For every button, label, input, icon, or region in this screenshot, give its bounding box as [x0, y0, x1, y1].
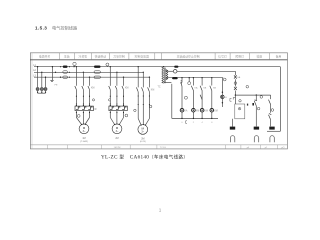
svg-text:刀架控制: 刀架控制 — [113, 54, 125, 58]
node dots on signal branch — [222, 92, 223, 104]
svg-text:冷却泵: 冷却泵 — [79, 54, 88, 58]
socket XS3 shell — [270, 136, 274, 143]
svg-text:1: 1 — [159, 208, 162, 213]
node dots above FR1 — [76, 105, 90, 106]
terminal circle right of M1 — [92, 99, 94, 101]
terminal circle top right b — [260, 96, 263, 99]
terminal circle top right a — [246, 85, 249, 88]
svg-text:电源开关: 电源开关 — [39, 54, 51, 58]
coil KM2 — [200, 108, 204, 112]
fuse FU1 pole L2 — [63, 71, 68, 73]
svg-text:1.5.3: 1.5.3 — [35, 26, 47, 31]
node taps on L1 L2 L3 for plug — [37, 66, 46, 78]
svg-text:KM: KM — [205, 110, 209, 112]
svg-text:(0.25): (0.25) — [140, 141, 146, 143]
svg-text:电气控制线路: 电气控制线路 — [52, 24, 78, 31]
node taps M3 — [138, 66, 151, 78]
node dots above FR2 — [110, 105, 124, 106]
contactor KM1 main contacts — [75, 86, 90, 90]
bottom strip top rule — [30, 144, 288, 146]
lamp HL signal — [173, 70, 177, 74]
socket XS2 shell — [254, 136, 258, 143]
terminal circle near M2 — [125, 114, 128, 117]
wire drop to plug pole 1 — [37, 67, 39, 88]
node dots on M1 M2 poles — [76, 96, 124, 105]
transformer TC core — [163, 68, 166, 84]
node taps M2 — [110, 66, 125, 78]
svg-text:插座: 插座 — [257, 54, 263, 58]
node PE taps — [52, 66, 62, 78]
svg-text:备用: 备用 — [276, 54, 282, 58]
svg-text:1M: 1M — [82, 137, 85, 140]
header row bottom rule — [30, 59, 288, 61]
coil KM3 — [210, 108, 214, 112]
wire right edge drop — [267, 67, 280, 132]
terminal circle left of M2 — [109, 99, 111, 101]
svg-text:SA: SA — [237, 76, 240, 79]
control branch 4 wire — [211, 78, 213, 119]
ground PE — [50, 80, 53, 81]
fuse FU2 pole L1 (filled) — [94, 66, 101, 68]
wire M1 below relay — [76, 111, 89, 125]
node stub EL — [188, 78, 190, 82]
node dots below FR2 — [110, 112, 124, 113]
wire stubs below plug — [38, 91, 46, 94]
wire secondary 36V lead — [167, 70, 174, 72]
wire M1 pole drops lower — [76, 90, 89, 107]
svg-text:快速移动: 快速移动 — [95, 54, 107, 58]
wire M2 below relay — [110, 111, 123, 125]
value label M3 — [140, 137, 146, 143]
wire L3 bus — [34, 76, 149, 78]
wire L1 bus — [34, 66, 280, 68]
terminal circle above box — [239, 100, 241, 102]
socket XS1 base — [230, 127, 235, 130]
terminal circle near M1 — [77, 115, 80, 118]
wire L2 bus — [34, 71, 143, 73]
thermal relay FR1 box — [75, 106, 93, 111]
wire drop to plug pole 3 — [45, 77, 47, 87]
svg-text:(7.5kW): (7.5kW) — [80, 141, 88, 143]
wire into XS1 — [232, 119, 234, 127]
wire drop to plug pole 2 — [41, 72, 43, 87]
plug XP pole 3 — [44, 88, 47, 91]
lamp EL indicator — [188, 82, 191, 85]
node on link — [256, 94, 257, 95]
node dots below FR1 — [76, 112, 90, 113]
switch contact lower (x mark) — [234, 87, 237, 90]
control branch 2 wire — [192, 78, 194, 119]
node dots below plug — [37, 92, 46, 93]
plug XP pole 2 — [40, 88, 43, 91]
lamp circle inside box — [238, 108, 240, 110]
fuse FU4 on control bus (filled) — [172, 77, 178, 79]
right branch 2 wire — [270, 95, 272, 126]
svg-text:3M: 3M — [141, 137, 144, 140]
fuse FU2 pole L2 — [94, 71, 101, 73]
box lighting unit EL — [235, 104, 245, 119]
svg-text:6: 6 — [211, 122, 213, 124]
socket XS1 shell — [230, 136, 234, 143]
bottom strip labels — [114, 147, 286, 149]
socket XS2 base — [254, 127, 259, 130]
wire secondary stubs — [165, 70, 167, 80]
svg-text:KM: KM — [196, 110, 200, 112]
wire lighting drop at 235.4 — [234, 71, 236, 104]
motor M3 — [138, 124, 148, 134]
svg-text:信号灯: 信号灯 — [218, 54, 227, 58]
drawing outer frame — [30, 53, 287, 149]
node dots on control bus — [181, 77, 212, 78]
svg-text:照明灯: 照明灯 — [235, 54, 244, 58]
node taps M1 — [76, 66, 91, 78]
svg-text:KM: KM — [151, 90, 155, 92]
wire M2 pole drops upper — [110, 67, 123, 86]
terminal circle on drop — [234, 82, 237, 85]
wire 0V return — [164, 83, 218, 119]
wire 36V continues — [177, 70, 235, 72]
terminal circle SB — [184, 96, 187, 99]
svg-text:主轴起动停止控制: 主轴起动停止控制 — [177, 54, 200, 58]
svg-text:KM: KM — [214, 110, 218, 112]
terminal circle on L1 at 107 — [106, 63, 109, 67]
contactor KM2 main contacts — [109, 86, 124, 90]
svg-text:FR: FR — [94, 109, 97, 111]
svg-text:SB: SB — [203, 88, 206, 90]
contact SB3 — [200, 86, 202, 91]
transformer TC secondary winding — [166, 70, 168, 80]
pushbutton SB1 stop — [180, 80, 182, 86]
svg-text:控制变压器: 控制变压器 — [135, 54, 150, 58]
contact KA1 — [191, 86, 193, 91]
svg-text:TC EL: TC EL — [160, 147, 167, 149]
terminal circle branch1 — [257, 107, 260, 110]
svg-text:2M: 2M — [115, 137, 118, 140]
wire M3 pole drops lower — [138, 92, 149, 125]
right branch 1 wire — [255, 95, 257, 126]
wire PE drop — [51, 67, 53, 81]
transformer TC primary winding — [162, 67, 164, 84]
wire M1 pole drops upper — [76, 67, 89, 86]
svg-text:3~: 3~ — [141, 131, 144, 134]
node dots on M3 poles — [138, 95, 150, 105]
svg-text:3~: 3~ — [83, 130, 86, 133]
svg-text:μ1: μ1 — [265, 147, 268, 149]
lamp HL signal (circle with X) — [221, 95, 224, 98]
svg-text:KM: KM — [91, 87, 95, 89]
contact right branch 2 upper — [269, 100, 271, 105]
fuse FU1 pole L3 — [63, 76, 68, 78]
tick marks below junction — [233, 98, 235, 100]
contact KA2 mid — [200, 95, 202, 100]
wire numbers below bottom bus — [181, 122, 213, 124]
node junction on drop — [235, 94, 236, 95]
svg-text:3~: 3~ — [116, 130, 119, 133]
svg-text:KA: KA — [184, 109, 188, 112]
thermal relay FR2 box — [109, 106, 127, 111]
contact right branch 1 — [254, 100, 257, 106]
motor M1 — [79, 124, 89, 134]
dark tick right of box — [252, 103, 254, 106]
wire bus corner down at 222 — [221, 78, 223, 107]
bottom strip dividers — [47, 145, 277, 149]
terminal circle branch2 — [271, 109, 274, 112]
fuse FU1 pole L1 (filled) — [63, 66, 68, 68]
svg-text:YL-ZC 型 CA6140（车床电气线路）: YL-ZC 型 CA6140（车床电气线路） — [101, 153, 188, 160]
contact right branch 2 lower — [269, 114, 272, 120]
fuse FU3 on L1 extension (filled) — [174, 66, 178, 68]
svg-text:L2: L2 — [33, 69, 36, 72]
dark tick at box corner — [247, 104, 248, 106]
svg-text:HL: HL — [224, 97, 228, 99]
terminal circle left of M3 — [134, 109, 136, 111]
terminal circle at 224.5 — [223, 78, 226, 81]
svg-text:0: 0 — [181, 122, 183, 124]
node dots around FU1 — [60, 66, 75, 78]
frame left inner margin line — [31, 53, 33, 149]
control branch 1 wire — [181, 78, 183, 119]
svg-text:μ(1: μ(1 — [281, 147, 285, 149]
heading 1.5.3 — [35, 24, 78, 31]
header column dividers — [59, 53, 269, 60]
node dots on bottom bus — [181, 118, 212, 119]
svg-text:KM: KM — [125, 87, 129, 89]
svg-text:2: 2 — [193, 122, 195, 124]
value label M1 — [80, 137, 88, 143]
label M3 symbol — [141, 127, 144, 134]
header cell labels — [39, 54, 282, 58]
svg-text:μ4: μ4 — [247, 147, 250, 149]
plug XP pole 1 — [36, 88, 39, 91]
coil KA — [180, 108, 184, 112]
svg-text:1M 2M: 1M 2M — [114, 147, 121, 149]
wire link to right branches — [235, 94, 270, 96]
svg-text:主轴: 主轴 — [64, 54, 70, 58]
contact SB4 — [210, 86, 212, 91]
svg-text:TC: TC — [158, 87, 161, 89]
motor M2 — [112, 124, 122, 134]
svg-text:KA: KA — [195, 87, 198, 90]
label M2 symbol — [116, 126, 119, 133]
svg-text:4: 4 — [201, 122, 203, 124]
connector bracket marks — [186, 98, 232, 123]
coil KM1 — [192, 108, 196, 112]
svg-text:SB: SB — [213, 88, 216, 90]
fuse FU2 pole L3 — [94, 76, 101, 78]
wire M3 pole drops upper — [138, 67, 149, 88]
wire control bus 110V — [167, 77, 224, 79]
control branch 3 wire — [201, 78, 203, 119]
svg-text:PE: PE — [55, 85, 58, 87]
terminal circle near M3 — [149, 105, 152, 108]
switch SA contact upper (x mark) — [234, 75, 237, 78]
label M1 symbol — [83, 126, 86, 133]
socket XS3 base — [269, 127, 274, 130]
contactor KM3 main contacts — [136, 87, 149, 91]
node TC top tap — [163, 66, 164, 67]
wire M2 pole drops lower — [110, 90, 123, 107]
terminal circle on L1 at 74.5 — [73, 62, 76, 66]
